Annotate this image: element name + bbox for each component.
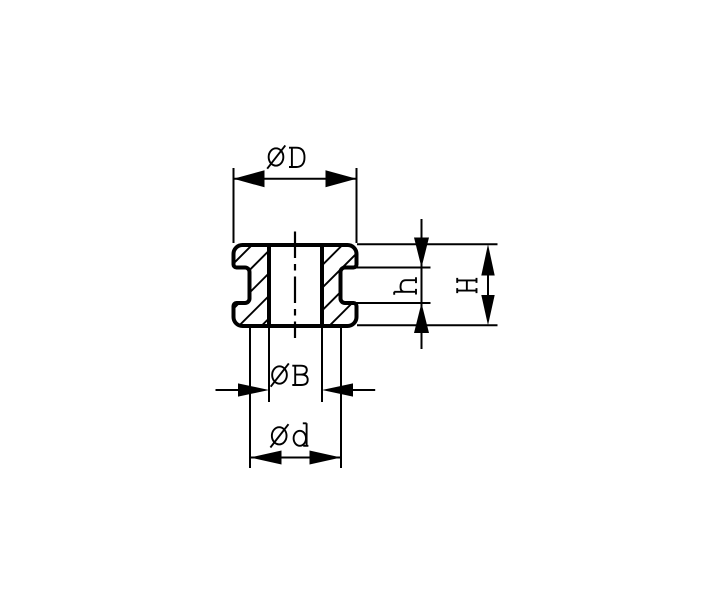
dimension OB : extension lines xyxy=(268,328,270,402)
center line (dash-dot) xyxy=(294,232,296,339)
label OB xyxy=(271,363,289,386)
label OD xyxy=(267,145,285,168)
dimension H : extension lines xyxy=(357,243,498,245)
hole bore right edge xyxy=(320,244,324,327)
label Od xyxy=(270,424,288,447)
grommet section hatching xyxy=(0,200,500,580)
dimension h : arrows outside pointing inward xyxy=(421,219,423,349)
dimension OB : dimension line, arrows pointing inward xyxy=(216,389,241,391)
dimension H : dimension line with outward arrows xyxy=(487,275,489,296)
dimension OD : extension lines xyxy=(233,168,235,243)
dimension Od : extension lines xyxy=(249,328,251,468)
dimension Od : dimension line with outward arrows xyxy=(251,457,340,459)
label H (rotated) xyxy=(457,278,476,293)
dimension OD : dimension line with outward arrows xyxy=(234,178,356,180)
label h (rotated) xyxy=(394,277,416,295)
hole bore left edge xyxy=(267,244,271,327)
grommet body outline xyxy=(234,245,357,326)
dimension h : extension lines xyxy=(345,267,431,269)
